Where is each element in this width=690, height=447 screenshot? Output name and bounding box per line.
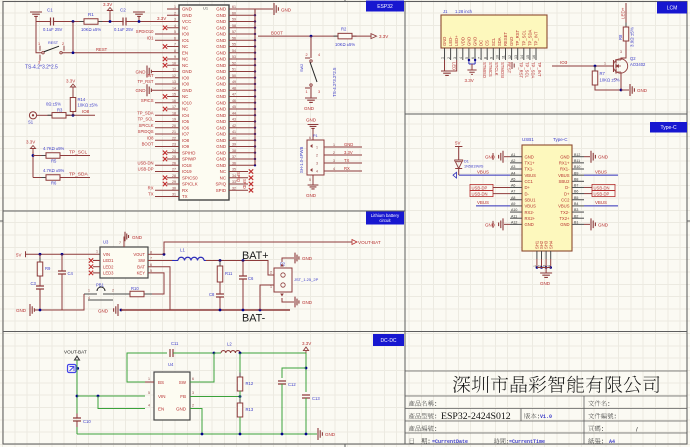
svg-text:55: 55 xyxy=(232,43,236,47)
junction rail/C12 xyxy=(281,433,284,436)
wire to EN xyxy=(98,396,145,409)
wire to R5 xyxy=(33,155,46,157)
svg-text:SPICS: SPICS xyxy=(141,98,154,103)
svg-text:TP_INT: TP_INT xyxy=(537,62,542,77)
svg-text:TS-4.2*3.2*2.5: TS-4.2*3.2*2.5 xyxy=(25,65,58,71)
junction pullups xyxy=(32,154,35,157)
svg-text:B1: B1 xyxy=(574,220,578,224)
resistor R13 xyxy=(239,399,241,422)
junction rail/C8 xyxy=(219,309,222,312)
svg-text:R7: R7 xyxy=(600,71,606,76)
svg-text:=CurrentTime: =CurrentTime xyxy=(509,439,545,445)
svg-text:GND: GND xyxy=(216,119,226,124)
wire C12 branch xyxy=(282,368,306,378)
junction rail/P2 xyxy=(259,309,262,312)
wire 5V rail xyxy=(26,253,101,255)
svg-text:R10: R10 xyxy=(131,286,139,291)
svg-text:IO1: IO1 xyxy=(147,35,154,40)
label 时间 xyxy=(494,438,508,444)
svg-text:41: 41 xyxy=(232,130,236,134)
svg-text:4: 4 xyxy=(459,57,463,59)
svg-text:SPICLK: SPICLK xyxy=(139,123,154,128)
capacitor C10 xyxy=(73,418,81,421)
svg-text:LED2: LED2 xyxy=(103,264,114,269)
svg-text:SPICLK: SPICLK xyxy=(182,182,198,187)
junction L1/R11 xyxy=(219,259,222,262)
svg-text:CS: CS xyxy=(485,40,490,46)
svg-text:2: 2 xyxy=(62,42,64,46)
svg-text:1: 1 xyxy=(333,143,335,147)
svg-text:D+: D+ xyxy=(525,185,531,190)
section label Lithium battery circuit xyxy=(366,212,404,225)
svg-text:IO10: IO10 xyxy=(182,100,192,105)
svg-text:10KΩ ±5%: 10KΩ ±5% xyxy=(600,78,620,83)
svg-text:A4: A4 xyxy=(511,171,515,175)
svg-text:SPDIO10: SPDIO10 xyxy=(136,29,154,34)
capacitor C6 xyxy=(242,261,244,277)
wire net VBUS A4 xyxy=(459,174,510,176)
svg-text:RX: RX xyxy=(182,188,188,193)
svg-text:GND: GND xyxy=(182,88,192,93)
svg-text:BOOT: BOOT xyxy=(142,142,154,147)
label 纸张 xyxy=(588,438,603,444)
svg-text:14: 14 xyxy=(520,55,524,59)
wire 3.3V down to C13 xyxy=(305,353,307,392)
wire P2 pin1 to rail xyxy=(260,285,274,310)
svg-text:SCL: SCL xyxy=(491,37,496,46)
svg-text:GND: GND xyxy=(598,222,609,227)
svg-text:USB-DP: USB-DP xyxy=(472,186,488,191)
svg-text:VBUS: VBUS xyxy=(595,169,607,174)
svg-text:ESP32-2424S012: ESP32-2424S012 xyxy=(441,411,511,422)
svg-text:GND: GND xyxy=(216,82,226,87)
svg-text:A6: A6 xyxy=(511,184,515,188)
P1 pin 4 wire net RX xyxy=(324,170,362,172)
switch SW1 REST xyxy=(42,52,44,54)
svg-text:LED+: LED+ xyxy=(454,35,459,46)
svg-text:2: 2 xyxy=(316,154,318,158)
svg-text:U4: U4 xyxy=(168,362,174,367)
svg-text:8: 8 xyxy=(483,57,487,59)
svg-text:SBU1: SBU1 xyxy=(525,197,537,202)
junction SW/C11 xyxy=(213,352,216,355)
svg-text:RX2+: RX2+ xyxy=(525,216,536,221)
wire net VBUS B9 xyxy=(584,174,618,176)
svg-text:A8: A8 xyxy=(511,196,515,200)
wire GND bus right of U1 xyxy=(254,9,256,165)
svg-text:2: 2 xyxy=(112,289,114,293)
svg-text:3.3V: 3.3V xyxy=(66,79,75,84)
svg-text:RX1+: RX1+ xyxy=(559,161,570,166)
svg-text:44: 44 xyxy=(232,111,236,115)
svg-text:SPIQ: SPIQ xyxy=(236,172,241,183)
capacitor C11 xyxy=(171,349,173,357)
diode D1 zener xyxy=(455,160,463,169)
svg-text:12: 12 xyxy=(508,55,512,59)
capacitor C1 xyxy=(51,18,53,26)
svg-text:B11: B11 xyxy=(574,159,580,163)
ground GND (U3 top) xyxy=(123,237,125,248)
svg-text:56: 56 xyxy=(232,36,236,40)
op-amp U1 ESP32 module body xyxy=(179,5,229,200)
title block grid xyxy=(405,371,687,444)
transistor Q2 AO3402 xyxy=(613,59,627,73)
svg-text:C6: C6 xyxy=(248,276,254,281)
resistor R12 xyxy=(239,373,241,396)
svg-text:3.3V: 3.3V xyxy=(465,78,474,83)
svg-text:60: 60 xyxy=(232,11,236,15)
svg-text:GND: GND xyxy=(473,37,478,46)
svg-text:RX2-: RX2- xyxy=(525,210,535,215)
svg-text:TP_SCL: TP_SCL xyxy=(138,117,154,122)
wire GND rail (dcdc) xyxy=(77,433,317,435)
svg-text:R5: R5 xyxy=(51,159,57,164)
svg-text:7: 7 xyxy=(119,241,121,245)
svg-text:S1: S1 xyxy=(28,120,34,125)
svg-text:NC: NC xyxy=(182,63,188,68)
svg-text:GND: GND xyxy=(485,155,496,160)
svg-text:R3: R3 xyxy=(57,108,63,113)
svg-text:ESP32: ESP32 xyxy=(377,4,393,10)
wire 3.3V rail xyxy=(36,21,179,23)
svg-text:NC: NC xyxy=(182,94,188,99)
svg-text:GND: GND xyxy=(182,7,192,12)
svg-text:B12: B12 xyxy=(574,153,580,157)
wire GND to switch xyxy=(36,22,42,53)
svg-text:10KΩ ±5%: 10KΩ ±5% xyxy=(78,103,98,108)
svg-text:C8: C8 xyxy=(209,292,215,297)
svg-text:TP_SCL: TP_SCL xyxy=(521,30,526,46)
svg-text:USB1: USB1 xyxy=(522,137,534,142)
svg-text:NC: NC xyxy=(220,169,226,174)
svg-text:IO0: IO0 xyxy=(182,82,190,87)
svg-text:GND: GND xyxy=(216,19,226,24)
svg-text:11: 11 xyxy=(502,55,506,59)
svg-text:10: 10 xyxy=(496,55,500,59)
label 版本 xyxy=(524,413,539,419)
svg-text:GND: GND xyxy=(176,407,187,412)
svg-text:52: 52 xyxy=(232,61,236,65)
svg-text:B6: B6 xyxy=(574,190,578,194)
svg-text:VBUS: VBUS xyxy=(477,169,489,174)
svg-text:GND: GND xyxy=(598,155,609,160)
svg-text:GND: GND xyxy=(442,37,447,46)
wire BAT pin down xyxy=(148,267,170,310)
svg-text:VBUS: VBUS xyxy=(558,204,570,209)
svg-text:C1: C1 xyxy=(47,8,53,13)
svg-text:LCM: LCM xyxy=(667,5,678,11)
P1 pin 3 wire net TX xyxy=(324,162,362,164)
svg-text:3: 3 xyxy=(318,90,320,94)
svg-text:GND: GND xyxy=(466,37,471,46)
svg-text:GND: GND xyxy=(216,138,226,143)
svg-text:AO3402: AO3402 xyxy=(630,62,646,67)
wire PB1 to gnd rail xyxy=(62,294,84,310)
svg-text:4: 4 xyxy=(88,296,90,300)
power 3.3V (R2) xyxy=(352,35,371,37)
svg-text:TP_SDA: TP_SDA xyxy=(531,62,536,78)
ground GND (J1 pin1/3) xyxy=(444,60,446,71)
junction rail/C6 xyxy=(242,309,245,312)
section label DC-DC xyxy=(373,334,404,346)
svg-text:3.3V: 3.3V xyxy=(344,150,353,155)
svg-text:TP_RST: TP_RST xyxy=(519,62,524,78)
svg-text:9: 9 xyxy=(490,57,494,59)
wire R12 branch xyxy=(239,353,241,377)
svg-text:A7: A7 xyxy=(511,190,515,194)
svg-text:GND: GND xyxy=(216,25,226,30)
ground GND (B12) xyxy=(584,156,590,158)
svg-text:L1: L1 xyxy=(180,248,185,253)
svg-text:R12: R12 xyxy=(246,381,254,386)
svg-text:BS: BS xyxy=(158,380,164,385)
svg-text:STCLK: STCLK xyxy=(494,62,499,76)
svg-text:5V: 5V xyxy=(455,141,460,146)
svg-text:RX: RX xyxy=(148,185,154,190)
svg-text:KEY: KEY xyxy=(137,271,146,276)
svg-text:42: 42 xyxy=(232,124,236,128)
svg-text:1: 1 xyxy=(270,285,272,289)
junction BOOT/SW2 xyxy=(310,35,313,38)
resistor R3 xyxy=(48,114,71,116)
svg-text:GND: GND xyxy=(216,144,226,149)
svg-text:USB-DN: USB-DN xyxy=(472,192,488,197)
svg-text:GND: GND xyxy=(216,107,226,112)
svg-text:3.9Ω ±5%: 3.9Ω ±5% xyxy=(630,27,635,47)
svg-text:NC: NC xyxy=(182,25,188,30)
svg-text:SDA: SDA xyxy=(497,37,502,46)
junction rail/U4gnd xyxy=(201,433,204,436)
svg-text:R11: R11 xyxy=(225,271,233,276)
svg-text:1: 1 xyxy=(316,146,318,150)
svg-text:SPIDQS: SPIDQS xyxy=(138,129,154,134)
junction L1/C6 xyxy=(242,259,245,262)
svg-text:GND: GND xyxy=(216,50,226,55)
svg-text:GND: GND xyxy=(216,100,226,105)
svg-text:SPID: SPID xyxy=(216,188,226,193)
wire R12-R13 xyxy=(239,391,241,403)
svg-text:LED3: LED3 xyxy=(103,271,114,276)
svg-text:GND: GND xyxy=(509,37,514,46)
svg-text:LED+: LED+ xyxy=(621,7,626,19)
wire net TP_SDA xyxy=(60,177,90,179)
P1 pin 1 wire net GND xyxy=(324,146,362,148)
label 产品型号 xyxy=(409,413,436,419)
resistor R1 xyxy=(80,21,103,23)
wire R3-IO8 xyxy=(66,114,95,116)
svg-text:3.3V: 3.3V xyxy=(26,140,35,145)
svg-text:C3: C3 xyxy=(31,281,37,286)
svg-text:16: 16 xyxy=(532,55,536,59)
svg-text:C10: C10 xyxy=(83,419,91,424)
svg-text:C2: C2 xyxy=(120,8,126,13)
junction FB xyxy=(239,395,242,398)
svg-text:1: 1 xyxy=(38,42,40,46)
company name 深圳市晶彩智能有限公司 xyxy=(453,376,659,394)
svg-text:35: 35 xyxy=(232,168,236,172)
svg-text:SW2: SW2 xyxy=(300,64,304,72)
svg-text:IO4: IO4 xyxy=(182,113,190,118)
svg-text:J1: J1 xyxy=(443,9,448,14)
junction 5V/R9 xyxy=(39,253,42,256)
svg-text:48: 48 xyxy=(232,86,236,90)
svg-text:IO8: IO8 xyxy=(82,109,90,114)
svg-text:VCC: VCC xyxy=(182,19,191,24)
svg-text:C12: C12 xyxy=(288,382,296,387)
svg-text:RX: RX xyxy=(344,166,350,171)
svg-text:SPIWP: SPIWP xyxy=(182,157,196,162)
ground GND (A1) xyxy=(504,156,510,158)
svg-text:GND: GND xyxy=(325,432,336,437)
svg-text:B7: B7 xyxy=(574,184,578,188)
svg-text:13: 13 xyxy=(514,55,518,59)
svg-text:FB: FB xyxy=(180,394,186,399)
svg-text:54: 54 xyxy=(232,49,236,53)
ground GND (A12) xyxy=(504,223,510,225)
svg-text:40: 40 xyxy=(232,136,236,140)
svg-text:GND: GND xyxy=(637,88,648,93)
svg-text:50: 50 xyxy=(232,74,236,78)
svg-text:GND: GND xyxy=(344,142,353,147)
ground GND (P1 bottom) xyxy=(312,175,314,185)
svg-text:5: 5 xyxy=(465,57,469,59)
svg-text:BAT: BAT xyxy=(137,264,145,269)
svg-text:TX1+: TX1+ xyxy=(525,161,536,166)
svg-text:34: 34 xyxy=(232,174,236,178)
svg-text:GND: GND xyxy=(216,163,226,168)
op-amp U4 regulator body xyxy=(154,372,190,420)
wire L1 to P2 xyxy=(206,261,274,276)
svg-text:D1: D1 xyxy=(464,160,469,164)
junction rail/C13 xyxy=(305,433,308,436)
svg-text:4: 4 xyxy=(333,167,335,171)
connector USB1 body xyxy=(522,145,572,251)
ground GND (U1 right top) xyxy=(255,8,273,10)
svg-text:3.3V: 3.3V xyxy=(103,2,112,7)
svg-text:49: 49 xyxy=(232,80,236,84)
svg-text:36: 36 xyxy=(232,161,236,165)
svg-text:NC: NC xyxy=(182,57,188,62)
ground GND (USB1 shield) xyxy=(545,268,547,274)
ground GND (P2 top) xyxy=(282,258,294,262)
svg-text:GND: GND xyxy=(216,125,226,130)
wire LED+ to R8 xyxy=(625,3,627,27)
svg-text:GND: GND xyxy=(306,193,317,198)
svg-text:JST_1.25_2P: JST_1.25_2P xyxy=(294,277,319,282)
svg-text:EN: EN xyxy=(158,407,164,412)
svg-text:GND: GND xyxy=(216,63,226,68)
svg-text:REST: REST xyxy=(96,47,108,52)
svg-text:VDD: VDD xyxy=(460,37,465,46)
svg-text:V1.0: V1.0 xyxy=(540,414,552,420)
svg-text:LED-: LED- xyxy=(451,62,456,72)
resistor R10 xyxy=(116,293,152,295)
wire to R6 xyxy=(33,177,46,179)
port USB-DP B6 xyxy=(592,191,615,197)
section label ESP32 xyxy=(366,1,404,12)
svg-text:GND: GND xyxy=(216,132,226,137)
port USB-DN A7 xyxy=(470,191,493,197)
svg-text:STMCS: STMCS xyxy=(488,62,493,77)
switch SW2 BOOT xyxy=(310,60,312,62)
svg-text:8: 8 xyxy=(174,49,176,53)
svg-text:5V: 5V xyxy=(16,253,21,258)
svg-text:LED-: LED- xyxy=(448,36,453,46)
P1 pin 2 wire net 3.3V xyxy=(324,154,362,156)
svg-text:IO1: IO1 xyxy=(182,38,190,43)
svg-text:1N5819WS: 1N5819WS xyxy=(464,165,484,169)
svg-text:USB-DN: USB-DN xyxy=(137,160,153,165)
svg-text:A12: A12 xyxy=(511,220,517,224)
svg-text:B9: B9 xyxy=(574,171,578,175)
svg-text:D-: D- xyxy=(565,185,570,190)
junction EN tap xyxy=(97,395,100,398)
op-amp U3 charger body xyxy=(100,247,148,278)
svg-text:32: 32 xyxy=(232,186,236,190)
svg-text:TP_SDA: TP_SDA xyxy=(69,172,88,178)
svg-text:EN: EN xyxy=(182,50,188,55)
svg-text:REST: REST xyxy=(506,62,511,74)
svg-text:SPID: SPID xyxy=(242,179,247,189)
svg-text:38: 38 xyxy=(232,149,236,153)
junction gnd/C3 xyxy=(39,309,42,312)
svg-text:3.3V: 3.3V xyxy=(157,16,166,21)
svg-text:STMOSI: STMOSI xyxy=(500,62,505,78)
svg-text:SPICS0: SPICS0 xyxy=(182,175,198,180)
svg-text:USB-DP: USB-DP xyxy=(138,167,154,172)
wire SW up xyxy=(196,353,214,382)
svg-text:0.1uF 25V: 0.1uF 25V xyxy=(43,27,63,32)
svg-text:37: 37 xyxy=(232,155,236,159)
svg-text:R14: R14 xyxy=(78,97,86,102)
svg-text:DC: DC xyxy=(479,40,484,46)
svg-text:REST: REST xyxy=(48,41,59,45)
svg-text:33: 33 xyxy=(232,180,236,184)
svg-text:GND: GND xyxy=(304,106,315,111)
svg-text:53: 53 xyxy=(232,55,236,59)
label 产品编号 xyxy=(409,425,436,431)
svg-text:39: 39 xyxy=(232,143,236,147)
svg-text:GND: GND xyxy=(302,300,313,305)
svg-text:2: 2 xyxy=(447,57,451,59)
svg-text:=CurrentDate: =CurrentDate xyxy=(432,439,468,445)
svg-text:10KΩ ±5%: 10KΩ ±5% xyxy=(81,27,101,32)
svg-text:C13: C13 xyxy=(312,396,320,401)
svg-text:10KΩ ±5%: 10KΩ ±5% xyxy=(335,42,355,47)
svg-text:SPIQ: SPIQ xyxy=(216,182,227,187)
junction node rail/REST xyxy=(72,20,75,23)
svg-text:R6: R6 xyxy=(51,181,57,186)
connector P1 xyxy=(307,140,324,175)
svg-text:TP_INT: TP_INT xyxy=(534,31,539,46)
capacitor C2 xyxy=(124,18,126,26)
svg-text:U1: U1 xyxy=(203,6,209,11)
svg-text:GND: GND xyxy=(525,222,534,227)
capacitor C4 xyxy=(61,254,63,271)
svg-text:A5: A5 xyxy=(511,177,515,181)
svg-text:GND: GND xyxy=(216,69,226,74)
svg-text:B10: B10 xyxy=(574,165,580,169)
connector P2 JST xyxy=(274,268,292,292)
resistor R6 xyxy=(42,177,65,179)
svg-text:7: 7 xyxy=(477,57,481,59)
svg-text:0Ω ±5%: 0Ω ±5% xyxy=(46,102,61,107)
resistor R9 xyxy=(39,254,41,262)
svg-text:A4: A4 xyxy=(609,439,615,445)
svg-text:SW: SW xyxy=(179,380,187,385)
svg-text:TP_SCL: TP_SCL xyxy=(525,62,530,78)
resistor R2 xyxy=(335,35,338,37)
